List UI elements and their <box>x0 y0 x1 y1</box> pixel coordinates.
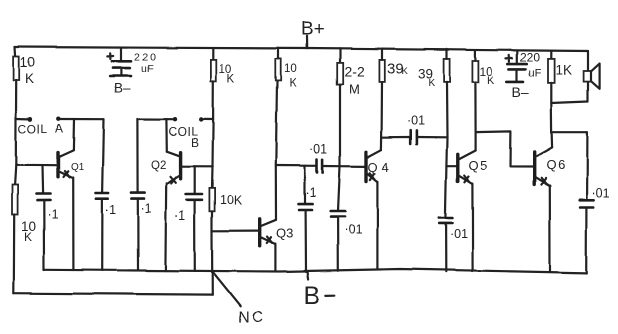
wire speaker bottom <box>551 102 588 104</box>
svg-text:·1: ·1 <box>175 209 186 223</box>
svg-text:10: 10 <box>284 64 297 76</box>
svg-text:Q1: Q1 <box>71 162 85 173</box>
svg-text:·01: ·01 <box>450 228 468 242</box>
node B+ tick <box>306 36 308 48</box>
node coil A right terminal dot <box>57 117 61 121</box>
wire coil A right terminal to C4 drop <box>61 118 104 120</box>
svg-text:uF: uF <box>529 68 542 80</box>
svg-text:B: B <box>191 136 199 150</box>
resistor R9 10K (Q2/Q3 bias) <box>209 188 214 211</box>
svg-text:Q2: Q2 <box>151 160 166 172</box>
wire left vertical (B+ rail to R1) <box>14 47 17 57</box>
wire R8 top lead <box>550 51 552 59</box>
wire C6 stub from Q2 base wire <box>194 166 196 194</box>
wire coupling node 1 horizontal (Q3 collector to C10) <box>276 164 317 167</box>
svg-text:K: K <box>24 231 32 245</box>
transistor Q4 <box>366 150 381 182</box>
wire NC pointer diagonal <box>213 273 240 306</box>
svg-text:Q5: Q5 <box>469 158 489 173</box>
svg-text:K: K <box>487 75 495 87</box>
capacitor C5 .1 <box>131 193 145 271</box>
svg-text:K: K <box>402 66 409 77</box>
svg-text:B: B <box>304 282 321 310</box>
svg-text:10: 10 <box>20 55 35 70</box>
svg-text:·01: ·01 <box>592 187 610 201</box>
node coil B right terminal dot <box>199 117 203 121</box>
wire coil A left stub <box>16 117 28 120</box>
capacitor C3 .1 <box>36 194 50 270</box>
resistor R8 1K <box>548 59 555 83</box>
wire R4 bottom lead to Q4 base junction and C8 <box>338 84 340 211</box>
wire Q1 base <box>16 164 58 167</box>
wire Q4 emitter vertical <box>376 181 378 268</box>
resistor R7 10K <box>472 61 478 82</box>
wire R4 top lead <box>339 49 341 63</box>
transistor Q3 <box>260 219 276 246</box>
wire coil B left terminal to C5 drop <box>137 118 172 120</box>
wire C5 drop vertical <box>136 119 138 193</box>
resistor R1 10K top-left <box>14 57 20 81</box>
svg-text:·1: ·1 <box>306 186 317 200</box>
svg-text:2-2: 2-2 <box>345 64 365 80</box>
svg-text:B–: B– <box>114 81 131 96</box>
svg-text:·01: ·01 <box>344 223 362 237</box>
capacitor C11 .01 series <box>410 130 447 143</box>
node B- tick <box>308 272 309 279</box>
wire R8 bottom lead through speaker junction to Q6 collector <box>550 83 553 147</box>
svg-text:Q3: Q3 <box>276 226 293 241</box>
svg-text:K: K <box>25 71 34 86</box>
svg-text:B–: B– <box>512 84 529 100</box>
capacitor C8 .01 <box>330 211 345 271</box>
wire left vertical (R1 to coil A stub / base / R10) <box>15 80 17 185</box>
wire Q1 emitter vertical <box>72 177 74 270</box>
resistor R2 10K <box>211 60 216 81</box>
wire R9 bottom lead crossing rail (NC) <box>211 211 214 294</box>
svg-text:K: K <box>289 78 297 90</box>
wire Q4 base from junction <box>340 165 366 167</box>
wire coil B right stub <box>203 118 213 120</box>
wire Q5 emitter vertical <box>471 184 473 271</box>
transistor Q6 <box>534 147 552 185</box>
capacitor C4 .1 <box>96 193 109 270</box>
wire Q2 base <box>181 165 213 167</box>
svg-text:·1: ·1 <box>105 203 116 217</box>
transistor Q1 <box>58 150 73 177</box>
svg-text:1K: 1K <box>556 63 573 78</box>
wire R10 bottom lead to return line <box>13 215 16 294</box>
capacitor C12 .01 <box>579 200 593 273</box>
node coil B left terminal dot <box>173 117 177 121</box>
capacitor C10 .01 series <box>317 160 340 173</box>
wire speaker vertical from rail <box>587 51 589 102</box>
wire R5 top lead <box>381 49 383 60</box>
label C1 plus <box>107 53 113 59</box>
svg-text:B+: B+ <box>301 19 325 40</box>
capacitor C1 220uF electrolytic <box>111 49 131 76</box>
speaker LS1 <box>584 64 600 89</box>
label C2 plus <box>506 55 513 61</box>
capacitor C2 220uF electrolytic right <box>507 51 527 82</box>
svg-text:·01: ·01 <box>407 114 425 128</box>
svg-text:220: 220 <box>520 51 540 65</box>
wire Q5-Q6 coupling (collector to Q6 base) <box>476 131 535 166</box>
wire Q3 collector / R3 vertical <box>276 81 277 220</box>
wire Q5 base <box>446 165 457 167</box>
wire R6 top lead <box>445 49 447 59</box>
transistor Q2 (mirrored) <box>167 151 181 183</box>
capacitor C9 .01 (Q5 base to ground) <box>439 218 453 272</box>
wire Q5 collector vertical <box>475 132 477 150</box>
transistor Q5 <box>458 150 476 184</box>
wire R9 node vertical (coil B stub to R9) <box>212 120 213 188</box>
wire coupling node 2 horizontal (Q4 collector to C11) <box>382 136 410 138</box>
node coil A left terminal dot <box>28 117 32 121</box>
wire bottom return line to NC junction <box>14 293 213 294</box>
wire Q6 collector node to C12 <box>552 131 587 133</box>
wire Q3 emitter vertical <box>274 244 276 271</box>
resistor R3 10K <box>275 59 280 81</box>
resistor R4 2.2M <box>337 63 343 84</box>
svg-text:A: A <box>55 122 63 136</box>
wire Q3 base <box>212 230 260 232</box>
wire R7 bottom lead to collector junction <box>474 82 476 132</box>
wire C12 vertical upper <box>585 132 588 200</box>
wire R7 top lead <box>474 51 476 61</box>
svg-text:uF: uF <box>141 63 153 75</box>
wire Q6 emitter vertical <box>549 186 551 272</box>
wire Q2 emitter vertical <box>164 183 167 270</box>
svg-text:·1: ·1 <box>141 202 152 216</box>
svg-text:Q4: Q4 <box>368 160 393 175</box>
resistor R6 39K <box>444 59 450 82</box>
capacitor C7 .1 <box>299 204 313 272</box>
wire Q4 collector vertical to R5 <box>380 82 383 150</box>
wire Q2 collector vertical <box>165 119 168 151</box>
svg-text:220: 220 <box>134 52 158 64</box>
wire bottom B- rail <box>44 269 586 273</box>
svg-text:K: K <box>428 78 435 89</box>
wire R2 top lead <box>212 48 214 60</box>
wire C7 stub and cap .1 (Q3 collector node to ground) <box>304 166 306 204</box>
svg-text:10K: 10K <box>220 193 243 207</box>
wire Q1 collector vertical <box>72 119 75 150</box>
svg-text:NC: NC <box>238 309 265 326</box>
wire B+ top rail <box>15 47 588 51</box>
svg-text:M: M <box>349 82 360 97</box>
wire R3 top lead <box>277 48 279 59</box>
wire R2 to coil B stub junction <box>212 81 214 120</box>
wire C3 stub from base wire <box>41 165 44 194</box>
svg-text:COIL: COIL <box>18 122 48 136</box>
svg-text:·1: ·1 <box>47 208 58 222</box>
wire C4 drop vertical <box>103 119 104 193</box>
capacitor C6 .1 <box>186 194 202 271</box>
resistor R10 10K lower-left <box>12 185 18 215</box>
svg-text:·01: ·01 <box>309 143 327 157</box>
resistor R5 39K <box>379 60 384 82</box>
wire R6 bottom lead through C11 junction to Q5 base and C9 <box>445 82 447 218</box>
svg-text:K: K <box>227 73 235 85</box>
svg-text:Q6: Q6 <box>546 158 566 173</box>
